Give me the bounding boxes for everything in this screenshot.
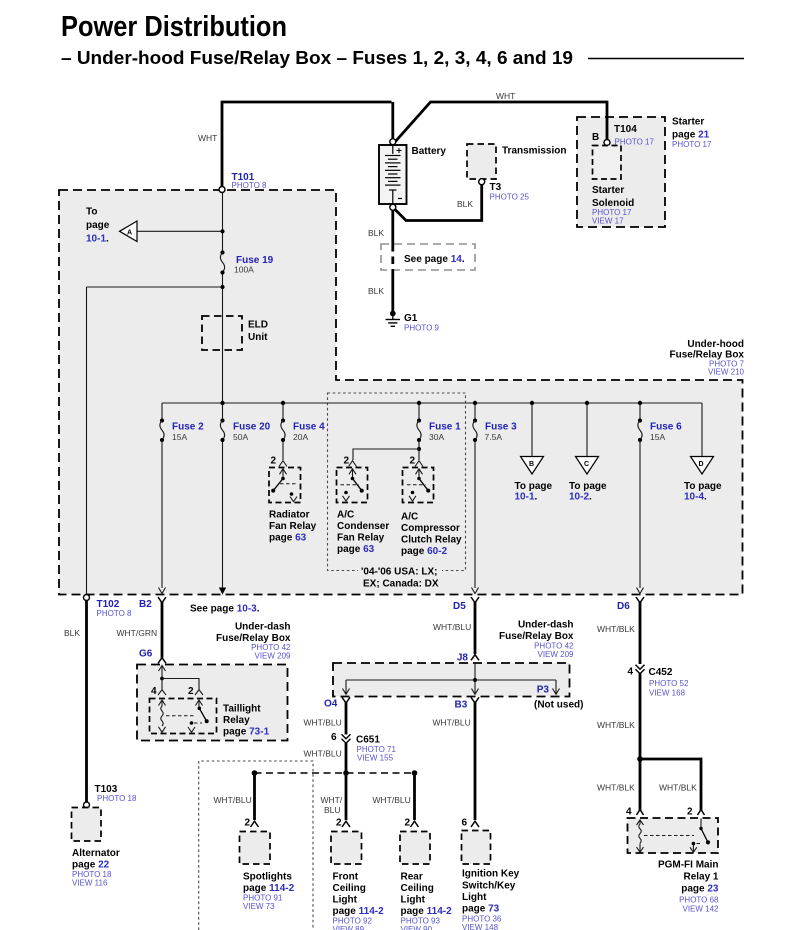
wire B3 to ignition key switch WHT/BLU — [474, 702, 477, 821]
svg-text:VIEW 90: VIEW 90 — [401, 925, 433, 930]
battery terminals — [390, 139, 396, 145]
svg-text:PHOTO 8: PHOTO 8 — [97, 609, 133, 618]
fuse 3 — [474, 403, 476, 420]
svg-text:Compressor: Compressor — [401, 523, 460, 534]
wire BLK battery to T3 — [395, 185, 482, 221]
svg-text:B: B — [592, 132, 599, 143]
svg-text:2: 2 — [404, 818, 410, 829]
svg-text:WHT/BLK: WHT/BLK — [659, 783, 697, 793]
wire spotlights drop — [253, 773, 256, 820]
svg-text:A/C: A/C — [401, 512, 418, 523]
svg-text:2: 2 — [687, 807, 693, 818]
svg-text:G1: G1 — [404, 313, 418, 324]
svg-text:PHOTO 9: PHOTO 9 — [404, 324, 440, 333]
fuse 6 — [639, 403, 641, 420]
svg-text:Fuse 3: Fuse 3 — [485, 422, 517, 433]
alternator box — [72, 808, 102, 842]
under-hood fuse/relay box outline — [59, 190, 743, 595]
svg-text:VIEW 17: VIEW 17 — [592, 217, 624, 226]
svg-text:BLK: BLK — [368, 228, 384, 238]
svg-text:WHT/BLU: WHT/BLU — [214, 795, 252, 805]
svg-text:C: C — [584, 461, 589, 468]
svg-text:Relay 1: Relay 1 — [683, 872, 718, 883]
svg-text:PHOTO 17: PHOTO 17 — [672, 140, 712, 149]
svg-text:B3: B3 — [455, 700, 468, 711]
starter box — [577, 117, 665, 227]
relay A/C Condenser Fan Relay — [337, 468, 368, 503]
svg-text:Light: Light — [462, 892, 487, 903]
taillight relay internal wiring — [159, 666, 166, 679]
svg-text:page 21: page 21 — [672, 130, 710, 141]
node B terminal — [604, 140, 610, 146]
svg-text:To: To — [86, 207, 97, 218]
svg-text:T104: T104 — [614, 124, 637, 135]
bus wire — [162, 402, 702, 404]
svg-text:4: 4 — [627, 667, 633, 678]
svg-text:WHT: WHT — [198, 133, 217, 143]
ground G1 — [386, 311, 401, 327]
ignition key switch box — [462, 831, 491, 865]
svg-text:Taillight: Taillight — [223, 704, 261, 715]
node T102 — [84, 595, 90, 601]
svg-text:2: 2 — [409, 456, 415, 467]
svg-text:BLK: BLK — [64, 628, 80, 638]
svg-text:4: 4 — [151, 686, 157, 697]
svg-text:Fuse 6: Fuse 6 — [650, 422, 682, 433]
svg-text:Fuse 1: Fuse 1 — [429, 422, 461, 433]
wire dashed through see-page box — [391, 244, 394, 270]
svg-text:See page 14.: See page 14. — [404, 254, 465, 265]
PGM-FI label — [658, 860, 719, 914]
svg-text:100A: 100A — [234, 265, 254, 275]
svg-text:10-1.: 10-1. — [515, 492, 538, 503]
svg-text:ELD: ELD — [248, 320, 268, 331]
svg-text:J8: J8 — [457, 653, 469, 664]
svg-text:VIEW 155: VIEW 155 — [357, 754, 394, 763]
svg-text:page 23: page 23 — [681, 884, 719, 895]
svg-text:Spotlights: Spotlights — [243, 872, 292, 883]
svg-text:VIEW 73: VIEW 73 — [243, 902, 275, 911]
exit arrowheads above bottom border — [159, 588, 644, 594]
J8 internal distribution — [474, 663, 476, 680]
svg-text:2: 2 — [343, 456, 349, 467]
svg-text:Battery: Battery — [412, 146, 447, 157]
svg-text:15A: 15A — [650, 432, 665, 442]
svg-text:Under-hood: Under-hood — [687, 339, 744, 350]
svg-text:WHT/BLU: WHT/BLU — [433, 718, 471, 728]
svg-text:B2: B2 — [139, 599, 152, 610]
fuse 20 — [220, 418, 224, 422]
svg-text:Clutch Relay: Clutch Relay — [401, 535, 462, 546]
svg-text:Transmission: Transmission — [502, 146, 566, 157]
subtitle rule — [588, 58, 744, 60]
wire T102 to alternator — [85, 601, 88, 803]
svg-text:C452: C452 — [649, 667, 673, 678]
ELD unit box — [202, 316, 242, 350]
svg-text:20A: 20A — [293, 432, 308, 442]
svg-text:B: B — [529, 461, 534, 468]
svg-text:D6: D6 — [617, 601, 630, 612]
front ceiling light box — [331, 832, 362, 865]
svg-text:T3: T3 — [490, 182, 502, 193]
svg-text:See page 10-3.: See page 10-3. — [190, 604, 260, 615]
starter solenoid box — [593, 146, 622, 180]
svg-text:Fuse 2: Fuse 2 — [172, 422, 204, 433]
svg-text:VIEW 142: VIEW 142 — [682, 905, 719, 914]
svg-text:WHT: WHT — [496, 91, 515, 101]
svg-text:Fuse/Relay Box: Fuse/Relay Box — [499, 631, 574, 642]
see page 14 box — [381, 244, 475, 270]
svg-text:WHT/BLU: WHT/BLU — [433, 622, 471, 632]
svg-text:Ignition Key: Ignition Key — [462, 869, 520, 880]
wire C651 down WHT/BLU — [345, 743, 348, 772]
svg-text:PHOTO 68: PHOTO 68 — [679, 896, 719, 905]
svg-text:page 63: page 63 — [269, 533, 307, 544]
svg-text:Fuse 4: Fuse 4 — [293, 422, 325, 433]
svg-text:4: 4 — [626, 807, 632, 818]
wire to triangle D — [701, 403, 703, 457]
wire front ceiling drop — [345, 773, 348, 820]
fuse 2 — [161, 403, 163, 420]
transmission box — [467, 144, 496, 179]
svg-text:BLU: BLU — [324, 805, 341, 815]
relay PGM-FI main relay 1 — [628, 818, 719, 853]
battery — [379, 145, 407, 204]
svg-text:Fan Relay: Fan Relay — [337, 533, 385, 544]
node bus junctions — [220, 401, 642, 405]
option note text — [358, 565, 442, 576]
svg-text:Unit: Unit — [248, 332, 268, 343]
wire to triangle C — [586, 403, 588, 457]
wire to page 10-1 arrow — [137, 230, 223, 232]
svg-text:2: 2 — [270, 456, 276, 467]
svg-text:VIEW 209: VIEW 209 — [537, 650, 574, 659]
under-dash J8/P3 box — [333, 663, 570, 697]
svg-text:D5: D5 — [453, 601, 466, 612]
svg-text:VIEW 209: VIEW 209 — [254, 652, 291, 661]
wire WHT top-left feed — [222, 102, 392, 187]
svg-text:BLK: BLK — [368, 286, 384, 296]
svg-text:15A: 15A — [172, 432, 187, 442]
fuse 19 — [220, 250, 224, 254]
arrow see page 10-3 exit — [219, 588, 226, 595]
svg-text:Rear: Rear — [401, 872, 423, 883]
dotted option box bottom — [199, 761, 313, 930]
svg-text:PHOTO 25: PHOTO 25 — [490, 193, 530, 202]
svg-text:EX; Canada: DX: EX; Canada: DX — [363, 579, 439, 590]
svg-text:PHOTO 8: PHOTO 8 — [232, 181, 268, 190]
svg-text:7.5A: 7.5A — [485, 432, 503, 442]
svg-text:VIEW 89: VIEW 89 — [333, 925, 365, 930]
svg-text:Switch/Key: Switch/Key — [462, 881, 516, 892]
svg-text:WHT/BLU: WHT/BLU — [373, 795, 411, 805]
node T3 — [479, 179, 485, 185]
wire to triangle B — [531, 403, 533, 457]
svg-text:WHT/BLU: WHT/BLU — [304, 718, 342, 728]
svg-text:page 114-2: page 114-2 — [401, 906, 453, 917]
svg-text:page 63: page 63 — [337, 544, 375, 555]
taillight relay outer box — [137, 665, 288, 741]
arrow A to page 10-1 — [120, 221, 138, 242]
relay A/C Compressor Clutch Relay — [403, 468, 434, 503]
svg-text:Fuse 20: Fuse 20 — [233, 422, 271, 433]
svg-text:Front: Front — [333, 872, 359, 883]
svg-text:A/C: A/C — [337, 510, 354, 521]
arrow D to page 10-4 — [691, 457, 714, 475]
svg-text:Condenser: Condenser — [337, 521, 389, 532]
svg-text:10-2.: 10-2. — [569, 492, 592, 503]
svg-text:WHT/BLK: WHT/BLK — [597, 624, 635, 634]
wire B2 to G6 WHT/GRN — [161, 602, 164, 659]
svg-text:Ceiling: Ceiling — [333, 883, 366, 894]
node splice PGM — [637, 756, 643, 762]
taillight relay inner box — [150, 699, 217, 734]
svg-text:Under-dash: Under-dash — [235, 622, 291, 633]
svg-text:page 73: page 73 — [462, 904, 500, 915]
svg-text:Alternator: Alternator — [72, 848, 120, 859]
wire branch to pin 2 — [640, 759, 701, 810]
svg-text:Radiator: Radiator — [269, 510, 310, 521]
fuse 4 — [282, 403, 284, 420]
svg-text:Ceiling: Ceiling — [401, 883, 434, 894]
svg-text:page 114-2: page 114-2 — [333, 906, 385, 917]
svg-text:2: 2 — [336, 818, 342, 829]
svg-text:Under-dash: Under-dash — [518, 620, 574, 631]
relay Radiator Fan Relay — [269, 468, 301, 503]
svg-text:Starter: Starter — [672, 117, 704, 128]
svg-text:– Under-hood Fuse/Relay Box –: – Under-hood Fuse/Relay Box – Fuses 1, 2… — [61, 47, 573, 68]
wire battery top drop — [391, 102, 394, 139]
under-dash fuse/relay box label (left) — [216, 622, 291, 661]
under-hood box label — [670, 339, 745, 377]
svg-text:G6: G6 — [139, 649, 153, 660]
svg-text:Power Distribution: Power Distribution — [61, 11, 287, 43]
svg-text:50A: 50A — [233, 432, 248, 442]
fuse 1 — [418, 403, 420, 420]
wire BLK battery to ground — [391, 210, 394, 244]
svg-text:WHT/GRN: WHT/GRN — [117, 628, 158, 638]
svg-text:'04-'06 USA: LX;: '04-'06 USA: LX; — [361, 567, 437, 578]
svg-text:2: 2 — [188, 686, 194, 697]
svg-text:To page: To page — [569, 481, 607, 492]
svg-text:VIEW 168: VIEW 168 — [649, 689, 686, 698]
spotlights box — [240, 832, 271, 865]
svg-text:P3: P3 — [537, 685, 550, 696]
wire branch to T102 — [87, 286, 223, 288]
svg-text:6: 6 — [331, 732, 337, 743]
wire fuse4 to radiator relay — [282, 440, 284, 460]
svg-text:PHOTO 52: PHOTO 52 — [649, 679, 689, 688]
svg-text:To page: To page — [684, 481, 722, 492]
svg-text:O4: O4 — [324, 699, 338, 710]
under-dash fuse/relay box label (right) — [499, 620, 574, 660]
svg-text:2: 2 — [244, 818, 250, 829]
svg-text:D: D — [699, 461, 704, 468]
svg-text:BLK: BLK — [457, 199, 473, 209]
wire C452 down WHT/BLK — [639, 674, 642, 760]
rear ceiling light box — [400, 832, 430, 865]
node T101 — [219, 187, 225, 193]
wire fuse1 split to A/C relays — [418, 440, 420, 449]
wire O4 WHT/BLU — [345, 702, 348, 735]
wire rear ceiling drop — [413, 773, 416, 820]
svg-text:page 22: page 22 — [72, 860, 110, 871]
svg-text:Fan Relay: Fan Relay — [269, 521, 317, 532]
svg-text:A: A — [127, 230, 132, 237]
arrow C to page 10-2 — [576, 457, 599, 475]
wire diagonal battery to starter feed — [395, 102, 608, 143]
svg-text:(Not used): (Not used) — [534, 700, 583, 711]
svg-text:PHOTO 18: PHOTO 18 — [97, 794, 137, 803]
svg-text:WHT/BLK: WHT/BLK — [597, 783, 635, 793]
svg-text:C651: C651 — [356, 735, 380, 746]
svg-text:page 60-2: page 60-2 — [401, 546, 448, 557]
svg-text:10-1.: 10-1. — [86, 234, 109, 245]
svg-text:page 73-1: page 73-1 — [223, 727, 270, 738]
dotted option box '04-'06 — [328, 393, 466, 571]
svg-text:To page: To page — [515, 481, 553, 492]
svg-text:page 114-2: page 114-2 — [243, 883, 295, 894]
wire dashed distribution — [255, 772, 415, 774]
svg-text:Relay: Relay — [223, 715, 250, 726]
svg-text:WHT/BLU: WHT/BLU — [304, 749, 342, 759]
svg-text:Light: Light — [333, 895, 358, 906]
svg-text:VIEW 148: VIEW 148 — [462, 923, 499, 930]
wire BLK to G1 — [391, 270, 394, 312]
svg-text:Starter: Starter — [592, 185, 624, 196]
svg-text:10-4.: 10-4. — [684, 492, 707, 503]
svg-text:PHOTO 17: PHOTO 17 — [615, 138, 655, 147]
svg-text:VIEW 116: VIEW 116 — [72, 879, 108, 888]
svg-text:WHT/BLK: WHT/BLK — [597, 720, 635, 730]
svg-text:30A: 30A — [429, 432, 444, 442]
arrow B to page 10-1 — [521, 457, 544, 475]
svg-text:WHT/: WHT/ — [321, 795, 343, 805]
svg-text:PGM-FI Main: PGM-FI Main — [658, 860, 719, 871]
svg-text:Light: Light — [401, 895, 426, 906]
main vertical wire T101 to bus — [222, 193, 224, 253]
svg-text:page: page — [86, 220, 110, 231]
node junction A-line — [220, 229, 224, 233]
svg-text:VIEW 210: VIEW 210 — [708, 368, 745, 377]
svg-text:6: 6 — [461, 818, 467, 829]
node splice — [343, 770, 349, 776]
